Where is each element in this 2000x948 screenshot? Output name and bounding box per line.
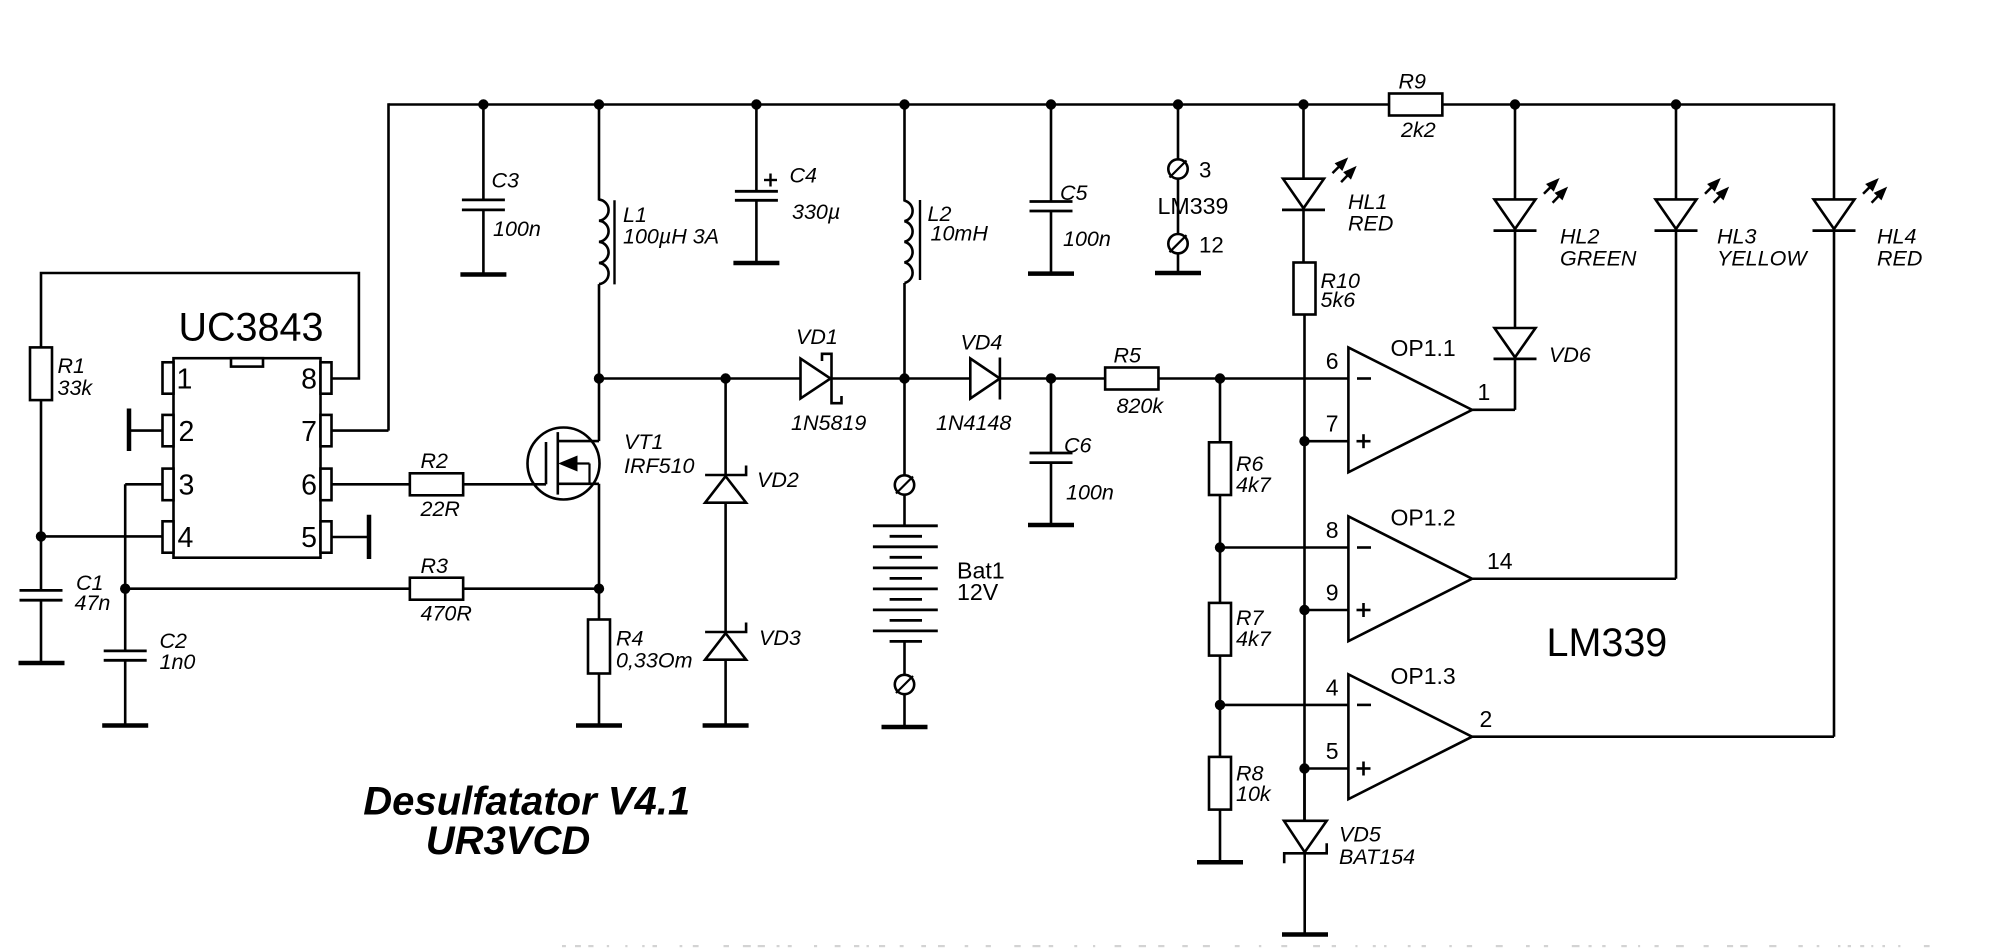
ground C5: [1028, 271, 1074, 276]
ground C3: [460, 272, 506, 277]
label title line 2: [426, 819, 590, 863]
diode VD4 1N4148: [970, 358, 1000, 400]
LED HL2 arrows: [1544, 179, 1567, 203]
ground C4: [733, 261, 779, 266]
wire VD6 to OP1.1 output: [1472, 360, 1515, 410]
svg-text:HL1: HL1: [1348, 190, 1387, 214]
wire HL4 to OP1.3 output: [1472, 231, 1834, 737]
wire top supply rail (R9 to HL4 corner): [1443, 103, 1836, 106]
svg-text:LM339: LM339: [1547, 621, 1668, 665]
node C3 rail: [478, 99, 488, 109]
svg-text:C5: C5: [1060, 181, 1089, 205]
wire pin8 to R1 top rail: [41, 273, 359, 379]
pin number 6: [301, 470, 317, 502]
svg-text:2: 2: [1480, 706, 1493, 732]
svg-text:0,33Om: 0,33Om: [616, 649, 692, 673]
label R5: [1114, 344, 1165, 419]
node VD2 top: [720, 373, 730, 383]
ground VD5: [1282, 932, 1328, 937]
pin 4 box: [163, 521, 174, 552]
svg-text:VD6: VD6: [1549, 343, 1591, 367]
label C1: [75, 571, 111, 615]
wire node B to C2: [124, 589, 127, 651]
svg-text:R2: R2: [421, 449, 449, 473]
wire battery to connector minus: [903, 641, 906, 675]
wire rail corner to HL4: [1833, 105, 1836, 200]
label HL2: [1560, 225, 1637, 271]
resistor R4: [588, 620, 610, 674]
label VD5: [1339, 823, 1415, 870]
pin number 5: [301, 522, 317, 554]
svg-text:12V: 12V: [957, 579, 999, 605]
wire drain node down: [598, 379, 601, 442]
svg-text:4k7: 4k7: [1236, 473, 1272, 497]
pin number 1: [177, 364, 193, 396]
connector LM339 pin 12: [1168, 234, 1187, 253]
LED HL1 arrows: [1333, 158, 1356, 182]
label LM339 power: [1158, 193, 1229, 219]
label R6: [1236, 452, 1272, 497]
pin 1 box: [163, 362, 174, 393]
svg-text:R1: R1: [58, 354, 85, 378]
LED HL3 YELLOW: [1655, 199, 1698, 230]
svg-text:330µ: 330µ: [792, 200, 840, 224]
ground battery: [882, 725, 928, 730]
svg-text:HL3: HL3: [1717, 225, 1756, 249]
wire VD4 to R5: [1000, 377, 1105, 380]
wire rail2 to VD5: [1303, 769, 1306, 821]
wire connector to battery: [903, 495, 906, 528]
svg-text:470R: 470R: [421, 602, 472, 626]
svg-text:7: 7: [1326, 411, 1339, 437]
wire HL1 to R10: [1302, 210, 1305, 262]
capacitor C5: [1030, 202, 1073, 212]
node HL1 rail: [1298, 99, 1308, 109]
label R3: [421, 554, 472, 626]
svg-text:OP1.3: OP1.3: [1391, 663, 1456, 689]
node LM339 pin3 rail: [1173, 99, 1183, 109]
connector battery minus: [895, 675, 914, 694]
wire R8 to ground: [1219, 810, 1222, 863]
svg-text:VD2: VD2: [757, 468, 799, 492]
wire R6 from mid node: [1219, 379, 1222, 443]
node C4 rail: [751, 99, 761, 109]
svg-text:UC3843: UC3843: [179, 306, 324, 350]
svg-text:10mH: 10mH: [931, 222, 989, 246]
resistor R9: [1389, 94, 1442, 116]
wire VT1 source down: [598, 484, 601, 620]
wire rail to pin3 connector: [1177, 105, 1180, 161]
op-amp OP1.2: [1348, 516, 1472, 641]
wire pin9 input: [1305, 609, 1349, 612]
ground R8: [1197, 860, 1243, 865]
svg-text:5k6: 5k6: [1321, 288, 1356, 312]
wire VD2 from node: [724, 379, 727, 476]
wire VD1 to L2 node: [832, 377, 971, 380]
ground C6: [1028, 523, 1074, 528]
wire pin4 input: [1220, 704, 1348, 707]
diode VD6: [1494, 328, 1537, 359]
wire rail to HL1: [1302, 105, 1305, 180]
svg-text:6: 6: [301, 470, 317, 502]
svg-text:4k7: 4k7: [1236, 627, 1272, 651]
svg-text:BAT154: BAT154: [1339, 845, 1415, 869]
svg-text:VD4: VD4: [961, 331, 1003, 355]
label L2: [928, 202, 989, 246]
svg-text:R5: R5: [1114, 344, 1143, 368]
label UC3843: [179, 306, 324, 350]
svg-text:5: 5: [301, 522, 317, 554]
pin 2 stub and bar: [129, 409, 163, 452]
svg-text:1n0: 1n0: [160, 650, 196, 674]
wire HL3 to OP1.2 output: [1472, 231, 1676, 579]
label R4: [616, 627, 692, 673]
pin 5 stub and bar: [332, 515, 370, 559]
pin number 2: [1480, 706, 1493, 732]
wire drain node to VD1: [599, 377, 801, 380]
label VD6: [1549, 343, 1591, 367]
svg-text:1: 1: [177, 364, 193, 396]
label R9: [1399, 70, 1436, 143]
label HL1: [1348, 190, 1393, 236]
node C6 top: [1046, 373, 1056, 383]
svg-text:8: 8: [1326, 517, 1339, 543]
node pin5 plus: [1299, 763, 1309, 773]
svg-text:VD1: VD1: [796, 325, 838, 349]
wire C5 to ground: [1050, 211, 1053, 274]
bottom edge artifacts: [562, 945, 1930, 947]
capacitor C6: [1030, 453, 1073, 463]
label OP1.1: [1391, 335, 1456, 361]
pin number 8: [1326, 517, 1339, 543]
svg-text:UR3VCD: UR3VCD: [426, 819, 590, 863]
ground LM339: [1155, 271, 1201, 276]
op-amp U1 UC3843 body: [174, 358, 321, 558]
wire R2 to gate: [463, 483, 546, 486]
pin number 7: [1326, 411, 1339, 437]
zener VD2: [705, 466, 746, 503]
node C5 rail: [1046, 99, 1056, 109]
svg-text:2k2: 2k2: [1400, 118, 1436, 142]
svg-text:9: 9: [1326, 580, 1339, 606]
wire L2 to mid node: [903, 283, 906, 379]
svg-text:HL4: HL4: [1877, 225, 1916, 249]
wire pin6 to R2: [332, 483, 411, 486]
wire L1 to drain node: [598, 284, 601, 378]
pin number 8: [301, 364, 317, 396]
diode VD5 BAT154: [1284, 821, 1327, 864]
svg-text:RED: RED: [1348, 212, 1393, 236]
wire rail to HL3: [1675, 105, 1678, 200]
label HL3: [1717, 225, 1808, 271]
svg-text:820k: 820k: [1117, 394, 1165, 418]
wire R1 bottom to node A: [40, 400, 43, 536]
wire VD5 to ground: [1303, 853, 1306, 933]
wire R6 to R7: [1219, 495, 1222, 603]
wire connector to ground: [903, 694, 906, 727]
wire C2 to ground: [124, 660, 127, 725]
svg-text:R9: R9: [1399, 70, 1427, 94]
capacitor C2: [104, 651, 147, 660]
wire R7 to R8: [1219, 656, 1222, 757]
wire C1 to ground: [40, 600, 43, 663]
wire rail to L2: [903, 105, 906, 202]
label pin 3: [1199, 158, 1211, 183]
wire rail to C5: [1050, 105, 1053, 202]
wire pin3 down to node B: [125, 484, 162, 588]
wire node A to C1: [40, 536, 43, 590]
ground C2: [102, 723, 148, 728]
resistor R6: [1209, 442, 1231, 495]
capacitor C4 (+): [735, 174, 778, 201]
ground C1: [19, 661, 65, 666]
ground R4: [576, 723, 622, 728]
pin number 1: [1478, 379, 1491, 405]
svg-text:100n: 100n: [1066, 481, 1114, 505]
svg-text:4: 4: [1326, 674, 1339, 700]
svg-text:R4: R4: [616, 627, 644, 651]
label C2: [160, 629, 196, 674]
label VD2: [757, 468, 799, 492]
wire R5 to OP1.1 minus: [1158, 377, 1348, 380]
label title line 1: [363, 780, 690, 824]
inductor L2: [905, 200, 921, 283]
pin number 14: [1487, 548, 1513, 574]
pin 3 box: [163, 469, 174, 501]
svg-text:R3: R3: [421, 554, 449, 578]
wire rail to HL2: [1514, 105, 1517, 200]
svg-text:6: 6: [1326, 348, 1339, 374]
wire HL2 to VD6: [1514, 231, 1517, 328]
node B (pin3/C2/R3): [120, 584, 130, 594]
resistor R3: [410, 578, 463, 600]
LED HL4 arrows: [1863, 179, 1886, 203]
wire C6 to ground: [1050, 463, 1053, 525]
svg-text:OP1.2: OP1.2: [1391, 505, 1456, 531]
wire VD3 to ground: [724, 660, 727, 726]
resistor R10: [1294, 263, 1316, 315]
svg-text:HL2: HL2: [1560, 225, 1599, 249]
node L2 rail: [899, 99, 909, 109]
label VD1: [791, 325, 866, 435]
label VD4: [936, 331, 1011, 436]
label R2: [420, 449, 460, 521]
svg-text:1N5819: 1N5819: [791, 411, 866, 435]
label R10: [1321, 269, 1360, 312]
svg-text:C6: C6: [1064, 434, 1092, 458]
diode VD1 1N5819: [801, 354, 842, 403]
node pin9 plus: [1299, 605, 1309, 615]
connector battery plus: [895, 475, 914, 494]
pin number 4: [1326, 674, 1339, 700]
wire VD2 to VD3: [724, 503, 727, 632]
inductor L1: [599, 200, 615, 285]
op-amp OP1.3: [1348, 674, 1472, 799]
label OP1.2: [1391, 505, 1456, 531]
svg-text:33k: 33k: [58, 376, 94, 400]
wire C4 to ground: [755, 200, 758, 263]
transistor Q1 VT1 IRF510: [528, 428, 600, 500]
pin number 5: [1326, 738, 1339, 764]
LED HL1 RED: [1282, 179, 1325, 210]
pin number 4: [178, 522, 194, 554]
wire pin4: [41, 535, 163, 538]
op-amp OP1.1: [1348, 347, 1472, 472]
svg-text:C3: C3: [492, 169, 520, 193]
label HL4: [1877, 225, 1922, 271]
label C4: [790, 164, 841, 225]
label pin 12: [1199, 233, 1224, 258]
svg-text:C4: C4: [790, 164, 818, 188]
wire pin7 input: [1305, 440, 1349, 443]
svg-text:47n: 47n: [75, 591, 111, 615]
wire C3 to ground: [482, 210, 485, 275]
label OP1.3: [1391, 663, 1456, 689]
node VT1 source / R3 / R4: [594, 584, 604, 594]
zener VD3: [705, 623, 746, 660]
node VT1 drain / VD1: [594, 373, 604, 383]
wire pin5 input: [1305, 767, 1349, 770]
label C3: [492, 169, 541, 242]
svg-text:RED: RED: [1877, 247, 1922, 271]
svg-text:YELLOW: YELLOW: [1717, 247, 1808, 271]
pin 8 box: [321, 362, 332, 393]
resistor R5: [1105, 368, 1158, 390]
LED HL2 GREEN: [1494, 199, 1537, 230]
wire node B to R3: [125, 587, 410, 590]
node A (R1/C1/pin4): [36, 531, 46, 541]
label LM339: [1547, 621, 1668, 665]
node L1 rail: [594, 99, 604, 109]
label R1: [58, 354, 94, 400]
wire pin3 to pin12: [1177, 179, 1180, 235]
svg-text:3: 3: [179, 470, 195, 502]
LED HL3 arrows: [1705, 179, 1728, 203]
wire C6 from mid rail: [1050, 379, 1053, 454]
svg-text:7: 7: [301, 416, 317, 448]
label R7: [1236, 606, 1272, 651]
label L1: [623, 203, 719, 249]
svg-text:GREEN: GREEN: [1560, 247, 1637, 271]
wire pin8 input: [1220, 546, 1348, 549]
label VT1: [624, 430, 695, 478]
node L2 bottom: [899, 373, 909, 383]
wire C3 from rail: [482, 105, 485, 200]
node HL2 rail: [1510, 99, 1520, 109]
svg-text:VT1: VT1: [624, 430, 663, 454]
resistor R2: [410, 473, 463, 495]
label C5: [1060, 181, 1111, 251]
wire mid node to connector: [903, 379, 906, 476]
LED HL4 RED: [1813, 199, 1856, 230]
node pin7 plus: [1299, 436, 1309, 446]
wire top supply rail (pin7 to R9): [389, 103, 1390, 106]
svg-text:4: 4: [178, 522, 194, 554]
resistor R1: [30, 347, 52, 400]
svg-text:100µH 3A: 100µH 3A: [623, 225, 719, 249]
svg-text:VD5: VD5: [1339, 823, 1382, 847]
ground VD2/VD3: [703, 723, 749, 728]
wire R4 to ground: [598, 674, 601, 726]
svg-text:IRF510: IRF510: [624, 454, 695, 478]
svg-text:1: 1: [1478, 379, 1491, 405]
resistor R8: [1209, 757, 1231, 810]
svg-text:5: 5: [1326, 738, 1339, 764]
svg-text:8: 8: [301, 364, 317, 396]
svg-text:12: 12: [1199, 233, 1224, 258]
label R8: [1236, 762, 1272, 807]
pin number 3: [179, 470, 195, 502]
svg-text:VD3: VD3: [759, 626, 801, 650]
capacitor C1: [20, 590, 63, 600]
wire R10 down rail2: [1303, 315, 1306, 821]
svg-text:L1: L1: [623, 203, 647, 227]
svg-text:3: 3: [1199, 158, 1211, 183]
battery Bat1 12V: [873, 526, 938, 642]
svg-text:LM339: LM339: [1158, 193, 1229, 219]
node R6/R7 (pin8): [1215, 542, 1225, 552]
wire rail to C4: [755, 105, 758, 192]
pin 6 box: [321, 469, 332, 501]
svg-text:OP1.1: OP1.1: [1391, 335, 1456, 361]
node R7/R8 (pin4): [1215, 700, 1225, 710]
label C6: [1064, 434, 1114, 505]
wire pin7 to top rail: [332, 103, 389, 430]
svg-text:Desulfatator V4.1: Desulfatator V4.1: [363, 780, 690, 824]
svg-text:100n: 100n: [493, 217, 541, 241]
capacitor C3: [462, 200, 505, 210]
resistor R7: [1209, 603, 1231, 656]
svg-text:100n: 100n: [1063, 227, 1111, 251]
pin number 9: [1326, 580, 1339, 606]
label VD3: [759, 626, 801, 650]
wire pin12 to ground: [1177, 253, 1180, 273]
pin number 2: [179, 416, 195, 448]
pin 5 box: [321, 521, 332, 552]
svg-text:14: 14: [1487, 548, 1513, 574]
pin 7 box: [321, 415, 332, 446]
wire rail to L1: [598, 105, 601, 201]
node R6 top: [1215, 373, 1225, 383]
pin 2 box: [163, 415, 174, 446]
connector LM339 pin 3: [1168, 159, 1187, 178]
svg-text:1N4148: 1N4148: [936, 411, 1011, 435]
pin number 7: [301, 416, 317, 448]
svg-text:22R: 22R: [420, 497, 460, 521]
svg-text:10k: 10k: [1236, 782, 1272, 806]
label Bat1: [957, 558, 1005, 606]
svg-text:2: 2: [179, 416, 195, 448]
node HL3 rail: [1671, 99, 1681, 109]
wire R3 to source node: [463, 587, 599, 590]
pin number 6: [1326, 348, 1339, 374]
